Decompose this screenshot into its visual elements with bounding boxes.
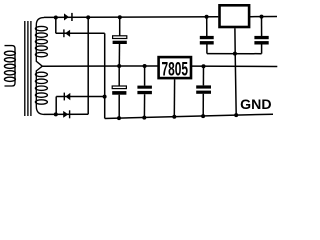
junction dot U1 gnd xyxy=(172,115,176,119)
wire D4 row (bottom secondary terminal) xyxy=(44,113,88,115)
junction dot C5 top xyxy=(202,64,206,68)
regulator U2 box (unlabeled) xyxy=(220,5,250,27)
transformer T1 primary winding xyxy=(4,46,15,86)
junction dot D3 node xyxy=(103,95,107,99)
capacitor C4 xyxy=(206,17,208,36)
junction dot node A xyxy=(54,16,58,20)
wire top rail (+) left segment xyxy=(44,16,218,19)
junction dot C3 top xyxy=(143,64,147,68)
wire U2 ground stem xyxy=(235,28,236,115)
junction dot C1/C2 mid xyxy=(117,64,121,68)
capacitor C6 xyxy=(261,17,263,36)
diode D2 xyxy=(63,29,64,37)
voltage regulator U1 7805 box xyxy=(159,57,191,78)
transformer T1 secondary bottom winding xyxy=(35,66,47,114)
wire +5V output rail xyxy=(192,65,277,67)
junction dot U2 common xyxy=(233,52,237,56)
transformer T1 secondary top winding xyxy=(35,18,47,67)
capacitor C1 (electrolytic, top) xyxy=(119,17,121,36)
wire +raw vertical (D4 cathode to top rail) xyxy=(87,17,89,114)
wire D3 row xyxy=(56,96,104,98)
wire bottom GND rail xyxy=(105,114,273,118)
wire U1 ground stem xyxy=(173,79,175,116)
junction dot C5 bottom xyxy=(201,114,205,118)
node A vertical wire (top secondary terminal to D2) xyxy=(55,18,57,34)
diode D3 xyxy=(64,93,65,101)
capacitor C2 (electrolytic, bottom) xyxy=(118,66,120,86)
junction dot C3 bottom xyxy=(142,116,146,120)
svg-text:GND: GND xyxy=(240,96,271,112)
capacitor C3 xyxy=(144,66,146,86)
wire top rail (+) right segment xyxy=(250,16,277,18)
junction dot U2 gnd at rail xyxy=(234,113,238,117)
junction dot top rail x88 xyxy=(86,15,90,19)
diode D1 xyxy=(64,13,69,20)
junction dot C4 top xyxy=(205,15,209,19)
wire -raw vertical (D2/D3 to bottom rail) xyxy=(104,33,106,118)
transformer T1 core xyxy=(25,21,31,116)
junction dot C1 top xyxy=(118,15,122,19)
svg-text:7805: 7805 xyxy=(162,59,189,80)
junction dot C2 bottom xyxy=(117,116,121,120)
junction dot C6 top xyxy=(260,15,264,19)
wire regulator common (y53.5) xyxy=(207,53,262,55)
node B vertical wire (bottom terminal to D3) xyxy=(55,97,57,115)
capacitor C5 xyxy=(202,66,204,85)
diode D4 xyxy=(63,111,68,118)
wire D2 row xyxy=(56,32,105,34)
wire mid rail to 7805 input xyxy=(42,65,157,67)
junction dot node B xyxy=(54,112,58,116)
